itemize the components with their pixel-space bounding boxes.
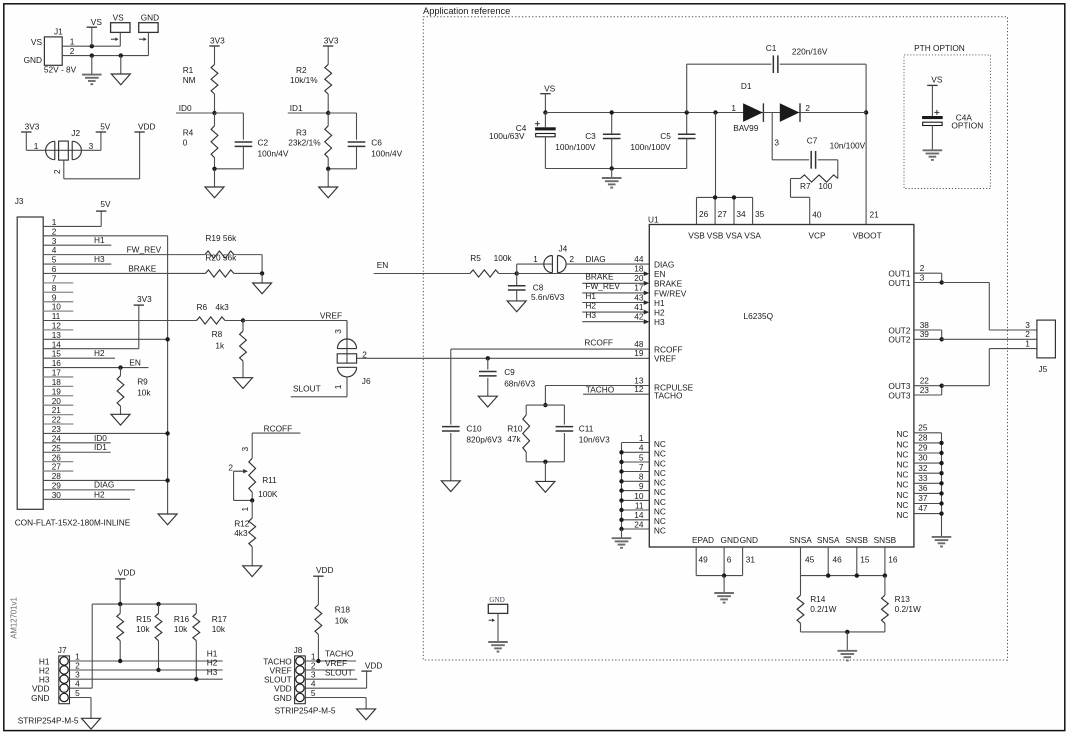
svg-text:H2: H2 [585,300,596,310]
svg-text:SNSB: SNSB [874,535,897,545]
node SNS 15 [855,573,859,577]
svg-text:OUT3: OUT3 [888,390,911,400]
svg-text:2: 2 [228,463,233,473]
svg-text:47: 47 [918,503,928,513]
svg-text:D1: D1 [741,81,752,91]
wire R10 C11 bottom [526,461,564,463]
net VREF J8 [305,658,355,670]
svg-text:EN: EN [377,260,389,270]
nodes NC left [619,450,623,531]
svg-text:1: 1 [731,103,736,113]
svg-text:37: 37 [918,493,928,503]
capacitor C8 [508,274,565,302]
svg-text:10k: 10k [335,615,349,625]
capacitor C5 [630,113,695,169]
svg-text:3V3: 3V3 [210,36,225,46]
svg-text:R10: R10 [507,423,523,433]
svg-text:RCOFF: RCOFF [584,338,613,348]
svg-text:R5: R5 [470,253,481,263]
svg-text:10k: 10k [212,624,226,634]
ground triangle J7 [82,718,101,729]
net flag GND [139,13,159,42]
jumper J6 [333,321,371,397]
ground earth C4A [923,150,943,160]
net H2 J7 [70,658,223,670]
resistor R19 [205,233,237,258]
node R19 R20 gnd [260,271,264,275]
svg-text:VS: VS [931,74,943,84]
svg-text:EPAD: EPAD [692,535,714,545]
resistor R16 [155,604,189,670]
resistor R8 [212,321,247,378]
svg-text:NC: NC [896,449,908,459]
svg-text:C6: C6 [371,138,382,148]
svg-text:0.2/1W: 0.2/1W [810,604,836,614]
svg-text:NC: NC [654,468,666,478]
svg-text:TACHO: TACHO [586,385,615,395]
svg-text:20: 20 [634,273,644,283]
svg-text:VSA: VSA [744,231,761,241]
power VS C4A [927,74,943,116]
svg-text:R17: R17 [212,614,228,624]
svg-text:NC: NC [896,460,908,470]
power 5V J3 [96,199,111,211]
U1 top pin labels [688,209,881,241]
wire GND flag [497,613,499,641]
ground triangle C8 [507,301,526,312]
wire J7 pin4 VDD [70,604,93,688]
connector J8 [263,645,316,704]
node pin13 bus [165,337,169,341]
node C3 bottom [610,166,614,170]
wire NC right gather [941,433,943,536]
wire VSB VSA bar [697,113,753,225]
svg-text:47k: 47k [507,434,521,444]
power 3V3 R1 [209,36,225,65]
node EPAD GND [722,573,726,577]
ground earth R14 R13 [838,632,858,661]
ground triangle C10 [441,481,460,492]
net DIAG J3 [43,480,135,490]
svg-text:100: 100 [818,181,832,191]
svg-text:EN: EN [654,269,666,279]
power 3V3 J3 [134,294,153,305]
U1 bottom pin labels [692,535,898,565]
svg-text:ID1: ID1 [290,103,303,113]
node ID0 [212,111,216,115]
svg-text:BRAKE: BRAKE [654,279,683,289]
ground earth GND flag [488,642,508,652]
svg-text:BAV99: BAV99 [733,123,759,133]
svg-text:R1: R1 [183,65,194,75]
net label RCOFF R11 [252,424,300,434]
svg-text:2: 2 [569,254,574,264]
svg-text:H2: H2 [94,348,105,358]
svg-text:J4: J4 [559,243,568,253]
svg-text:NC: NC [896,480,908,490]
svg-text:VS: VS [544,83,556,93]
net H3 to U1 pin 42 [582,310,649,324]
net FW_REV to U1 pin 17 [582,281,649,295]
net SLOUT J6 [291,383,347,396]
net H3 J7 [70,667,223,679]
svg-text:NC: NC [654,525,666,535]
wire R20 to gnd [234,272,262,274]
jumper J2 [44,128,81,174]
resistor R2 [290,64,332,94]
U1 left NC pins [622,433,666,536]
svg-text:1: 1 [240,507,250,512]
node R17 H3 [194,677,198,681]
svg-text:5.6n/6V3: 5.6n/6V3 [531,292,565,302]
net FW_REV J3 [43,244,205,254]
svg-text:NC: NC [896,429,908,439]
capacitor C6 [348,138,403,169]
wire J3 pin14 3V3 [43,305,139,349]
node R14 R13 gnd [845,630,849,634]
ground triangle ID1 [319,169,338,198]
svg-text:100n/100V: 100n/100V [555,142,596,152]
svg-text:R7: R7 [800,181,811,191]
wire J1 pin1 to VS [62,32,120,46]
svg-text:H2: H2 [94,489,105,499]
svg-text:28: 28 [918,433,928,443]
svg-text:NC: NC [896,490,908,500]
resistor R6 [197,302,230,324]
svg-text:C5: C5 [660,131,671,141]
svg-text:H1: H1 [94,235,105,245]
capacitor C7 [807,135,866,178]
wire J7 pin5 gnd [70,698,92,719]
svg-text:1: 1 [1025,338,1030,348]
svg-text:H3: H3 [94,254,105,264]
connector J1 [24,27,77,75]
U1 left pin numbers [634,254,644,394]
svg-text:3: 3 [240,447,250,452]
resistor R3 [288,113,331,169]
svg-text:GND: GND [141,13,159,23]
svg-text:VS: VS [113,13,125,23]
wire R10 C11 top [526,404,564,406]
wire J2 pin2 to VDD [64,132,140,179]
svg-text:25: 25 [918,422,928,432]
node R16 H2 [156,668,160,672]
power VS rail [540,83,555,112]
svg-text:7: 7 [639,462,644,472]
svg-text:H2: H2 [654,308,665,318]
svg-text:3: 3 [89,141,94,151]
node GND junction 1 [90,53,94,57]
svg-text:C9: C9 [504,367,515,377]
svg-text:C3: C3 [585,131,596,141]
svg-text:2: 2 [805,103,810,113]
svg-text:29: 29 [918,443,928,453]
node OUT2 [940,337,944,341]
svg-text:R11: R11 [262,475,277,485]
wire J6 pin2 VREF [357,357,650,359]
svg-text:NM: NM [183,75,196,85]
svg-text:4k3: 4k3 [234,528,248,538]
capacitor C10 [442,349,502,481]
wire D1 pin3 [772,113,809,160]
svg-text:R15: R15 [136,614,152,624]
svg-text:GND: GND [721,535,739,545]
svg-text:100k: 100k [494,253,513,263]
svg-text:0: 0 [183,138,188,148]
wire 3V3 to J2 pin1 [26,141,44,151]
ground triangle R9 [111,414,130,425]
svg-text:49: 49 [699,555,709,565]
wire J3 pin1 5V [43,211,101,226]
svg-text:45: 45 [805,555,815,565]
svg-text:SNSB: SNSB [846,535,869,545]
label STRIP254P J7 [18,716,79,726]
svg-text:H1: H1 [654,298,665,308]
svg-text:L6235Q: L6235Q [744,311,774,321]
svg-text:J6: J6 [362,376,371,386]
svg-text:NC: NC [654,449,666,459]
svg-text:100u/63V: 100u/63V [489,131,525,141]
svg-text:C2: C2 [258,138,269,148]
svg-text:VSA: VSA [726,231,743,241]
svg-text:VSB: VSB [707,231,724,241]
ground triangle J8 [357,709,376,720]
ground triangle ID0 [205,169,224,198]
svg-text:1: 1 [333,384,343,389]
connector J7 [31,645,80,704]
U1 right pin labels [888,269,911,401]
node VDD R16 [156,602,160,606]
svg-text:NC: NC [654,487,666,497]
svg-text:5V: 5V [100,199,111,209]
svg-text:ID1: ID1 [94,442,107,452]
node R3 bottom [326,167,330,171]
svg-text:DIAG: DIAG [94,480,114,490]
svg-text:10: 10 [634,491,644,501]
ground triangle J3 bus [158,514,177,525]
svg-text:10k: 10k [174,624,188,634]
net H2 J3 pin30 [43,489,130,499]
svg-text:46: 46 [833,555,843,565]
svg-text:VDD: VDD [118,567,136,577]
svg-text:OUT2: OUT2 [888,335,911,345]
ground triangle R19 R20 [253,273,272,293]
wire R14 R13 bottom [801,631,885,633]
wire caps bottom [545,168,686,170]
wire J3 pin23 bus [43,432,167,434]
resistor R20 [205,253,237,277]
svg-text:R19 56k: R19 56k [205,233,237,243]
svg-text:6: 6 [727,555,732,565]
wire ID1 to C6 [328,113,356,140]
net SLOUT J8 [305,667,357,679]
wire J3 pin11 R6 [43,320,196,322]
svg-text:44: 44 [634,254,644,264]
node R10 C11 bottom [543,460,547,464]
wire OUT3 to J5 pin1 [942,349,1037,386]
ground triangle R12 [243,566,262,577]
label STRIP254P J8 [275,705,336,715]
svg-text:J1: J1 [54,27,63,37]
svg-text:34: 34 [736,209,746,219]
svg-text:VBOOT: VBOOT [853,231,882,241]
svg-text:11: 11 [635,500,644,510]
svg-text:R16: R16 [174,614,190,624]
resistor R18 [315,604,350,661]
wire J8 pin4 VDD [305,671,366,688]
net H2 to U1 pin 41 [582,300,649,314]
wire OUT2 pins [914,330,942,339]
capacitor C11 [556,405,610,462]
net H1 J3 [43,235,111,245]
node VS junction [90,44,94,48]
svg-text:VSB: VSB [688,231,705,241]
ground triangle R8 [234,378,253,389]
svg-text:2: 2 [52,169,62,174]
svg-text:SLOUT: SLOUT [325,667,353,677]
svg-text:VDD: VDD [138,121,156,131]
svg-text:0.2/1W: 0.2/1W [895,604,921,614]
node VDD R15 [118,602,122,606]
svg-text:SNSA: SNSA [789,535,812,545]
wire SNS pins [801,547,885,576]
svg-text:68n/6V3: 68n/6V3 [504,378,535,388]
power 5V J2 [96,121,111,132]
wire J3 pin28 bus [43,479,167,481]
svg-text:DIAG: DIAG [585,254,605,264]
svg-text:NC: NC [896,510,908,520]
svg-text:GND: GND [489,596,505,604]
svg-text:OUT1: OUT1 [888,278,911,288]
svg-text:R13: R13 [895,594,911,604]
svg-text:ID0: ID0 [179,103,192,113]
connector J3 [15,196,44,509]
power VDD R18 [313,565,333,605]
wire R4 C2 bottom [215,168,244,170]
svg-text:1: 1 [639,433,644,443]
power VDD J8 [361,660,382,671]
capacitor C1 [687,43,866,112]
resistor R1 [183,64,218,94]
svg-text:32: 32 [918,463,928,473]
resistor R12 [234,500,255,565]
node SNS 16 [883,573,887,577]
power VDD J2 [134,121,155,132]
svg-text:5: 5 [639,452,644,462]
net label EN [374,260,470,273]
svg-text:R14: R14 [810,594,826,604]
svg-text:H3: H3 [654,317,665,327]
svg-text:NC: NC [654,439,666,449]
svg-text:C11: C11 [579,423,594,433]
net TACHO to U1 pin12 [583,385,649,395]
svg-text:NC: NC [896,470,908,480]
svg-text:NC: NC [654,458,666,468]
svg-text:RCOFF: RCOFF [264,424,293,434]
svg-text:U1: U1 [648,214,659,224]
svg-text:STRIP254P-M-5: STRIP254P-M-5 [18,716,79,726]
node R4 bottom [212,167,216,171]
wire EN to U1 pin18 [517,271,650,276]
svg-text:3: 3 [774,138,779,148]
svg-text:VDD: VDD [316,565,334,575]
svg-text:100K: 100K [258,489,278,499]
wire J3 pin13 bus [43,338,167,340]
ground earth J1 [82,56,102,85]
svg-text:GND: GND [740,535,758,545]
net EN J3 [43,357,148,367]
net DIAG to U1 pin44 [566,254,649,264]
svg-text:BRAKE: BRAKE [128,263,157,273]
op-amp U1 L6235Q body [648,214,914,547]
ground earth EPAD [714,576,734,603]
node VBOOT rail [864,110,868,114]
svg-text:FW/REV: FW/REV [654,288,687,298]
svg-text:STRIP254P-M-5: STRIP254P-M-5 [275,705,336,715]
svg-text:SNSA: SNSA [817,535,840,545]
node VREF C9 [486,356,490,360]
svg-text:EN: EN [129,357,141,367]
svg-text:H3: H3 [585,310,596,320]
svg-text:5: 5 [311,688,316,698]
wire EPAD GND pins [696,547,742,576]
svg-text:TACHO: TACHO [654,390,683,400]
capacitor C9 [479,358,535,396]
wire NC left gather [621,443,623,530]
svg-text:H3: H3 [207,667,218,677]
svg-text:4k3: 4k3 [215,302,229,312]
svg-text:26: 26 [699,209,709,219]
wire R6 to VREF node [225,320,243,322]
wire J3 pin2 bus [43,235,167,237]
wire C1 right to VBOOT [865,64,867,224]
svg-text:VCP: VCP [809,231,827,241]
svg-text:4: 4 [639,443,644,453]
diode D1 [716,81,867,147]
svg-text:GND: GND [24,55,42,65]
svg-text:SLOUT: SLOUT [293,383,321,393]
svg-text:NC: NC [896,439,908,449]
wire OUT3 pins [914,386,942,395]
svg-text:1: 1 [70,37,75,47]
svg-text:FW_REV: FW_REV [585,281,620,291]
node R11 R12 [250,498,254,502]
net H1 J7 [70,649,223,661]
svg-text:R6: R6 [197,302,208,312]
svg-text:J2: J2 [71,128,80,138]
svg-text:FW_REV: FW_REV [127,244,162,254]
svg-text:VDD: VDD [365,660,383,670]
ground triangle R10 C11 [536,462,555,492]
net label ID1 [288,103,329,113]
capacitor C4 [489,113,556,169]
svg-text:PTH OPTION: PTH OPTION [914,43,965,53]
svg-text:C1: C1 [766,43,777,53]
svg-text:5: 5 [75,688,80,698]
svg-text:VREF: VREF [325,658,347,668]
svg-text:220n/16V: 220n/16V [792,47,828,57]
svg-text:VS: VS [31,37,43,47]
wire ID0 to C2 [215,113,244,140]
capacitor C3 [555,113,620,169]
svg-text:41: 41 [634,302,644,312]
power 3V3 J2 [21,121,40,150]
wire J1 pin2 GND [62,32,148,55]
net label ID0 [176,103,215,113]
svg-text:9: 9 [639,481,644,491]
net BRAKE to U1 pin 20 [582,272,649,286]
svg-text:3: 3 [333,329,343,334]
